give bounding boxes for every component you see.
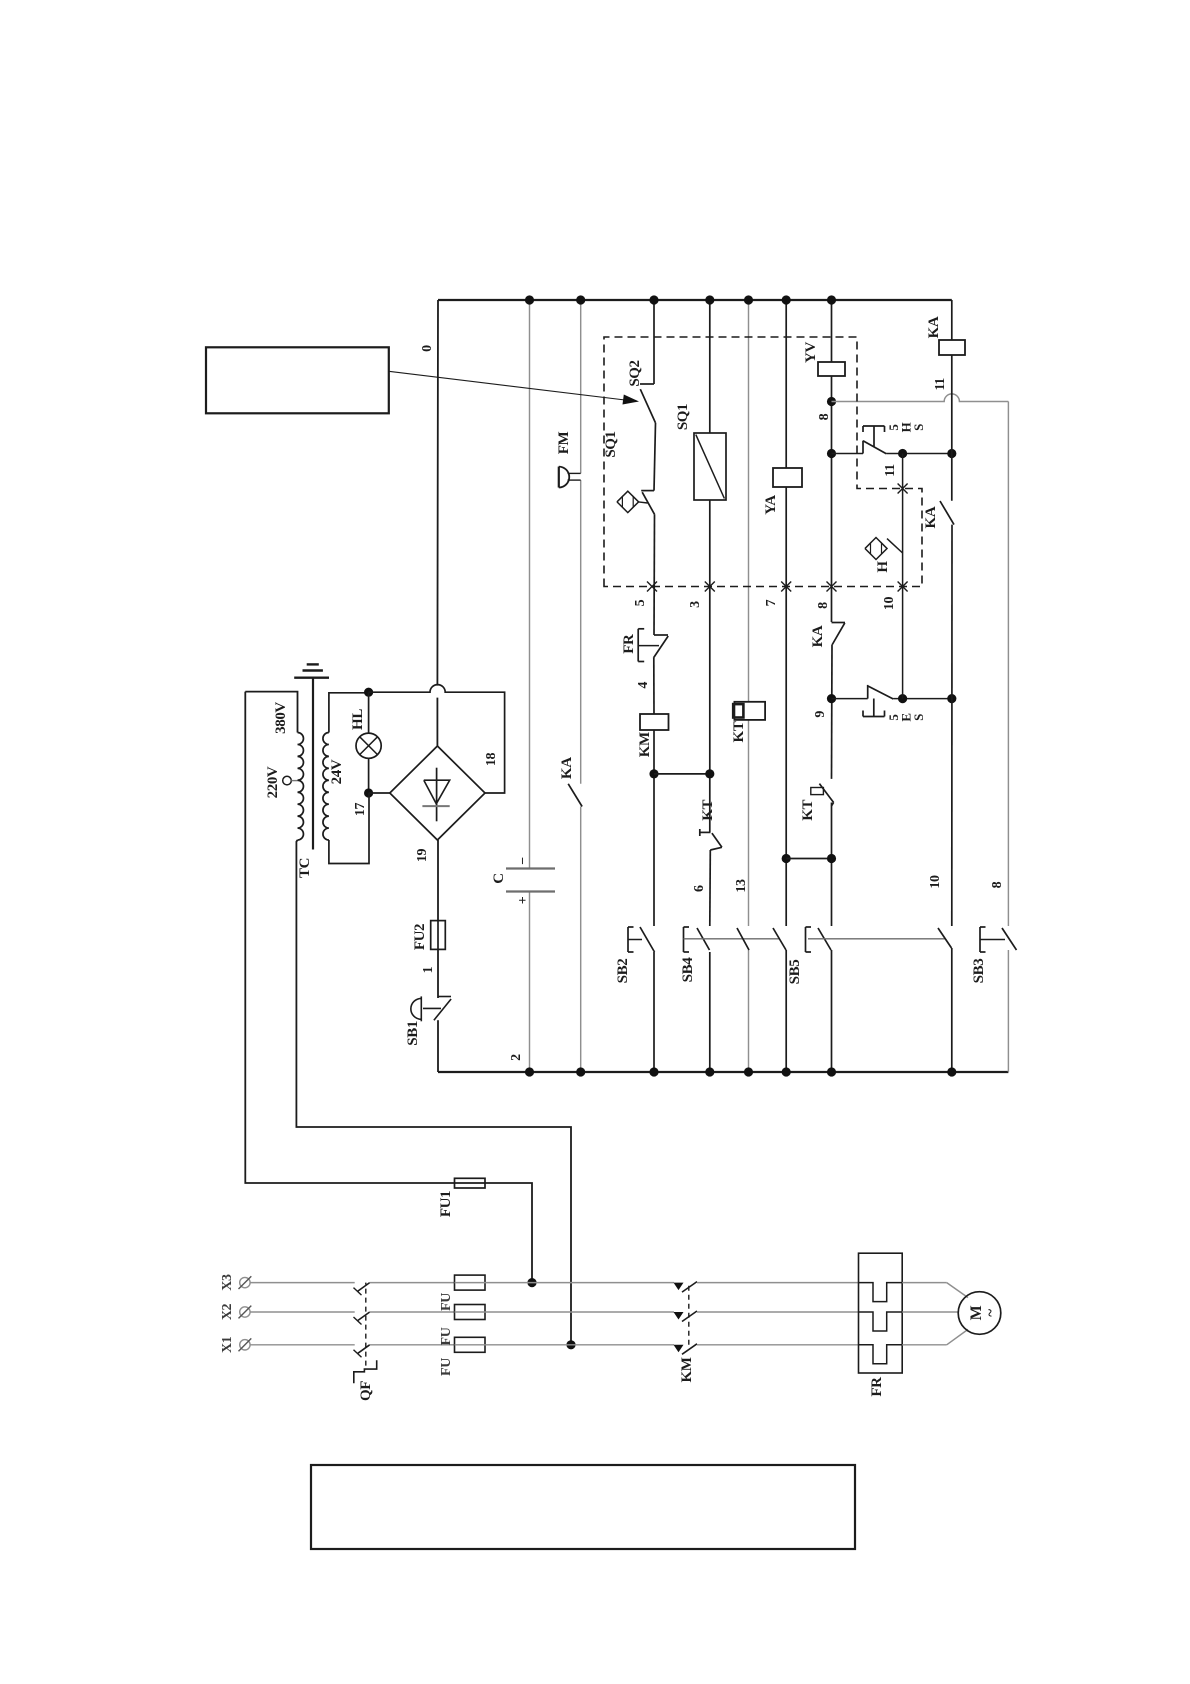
breaker QF linkage [365, 1283, 367, 1366]
switch 5ES [867, 685, 869, 699]
breaker QF pole X3 [357, 1283, 369, 1292]
wire rung 438 right segment (bridge plus output to rail 0) [436, 300, 439, 746]
junction rung654 left rail [649, 1067, 658, 1076]
wire phase X1 mid2 [485, 1344, 674, 1346]
crossing mark node 10 [898, 582, 908, 592]
wire 17 (HL to bridge top corner) [369, 792, 390, 794]
bridge diode [436, 768, 438, 822]
svg-text:KA: KA [810, 625, 826, 647]
svg-text:FM: FM [556, 432, 572, 455]
svg-text:TC: TC [297, 858, 313, 878]
svg-text:11: 11 [883, 464, 898, 477]
svg-text:X1: X1 [220, 1336, 235, 1353]
button SB3 contact [1002, 928, 1017, 950]
wire rung 710 segments [709, 952, 711, 1072]
button SB5 contact 2 [938, 928, 952, 948]
terminal X2 [240, 1307, 250, 1317]
junction 5HS-H branch [898, 449, 907, 458]
svg-text:220V: 220V [265, 766, 281, 798]
wire 2 (left return rail) [438, 1071, 1008, 1073]
valve coil YA [773, 468, 802, 487]
wire phase X1 lower [697, 1344, 859, 1346]
contactor coil KM [640, 714, 669, 730]
junction 5ES-rung952 [947, 694, 956, 703]
junction leadB-X1 [566, 1340, 575, 1349]
wire rung 580 (FM branch) [580, 807, 582, 1073]
svg-text:17: 17 [353, 803, 368, 817]
button SB4 contact 3 [773, 928, 786, 950]
time relay coil KT [734, 702, 765, 720]
svg-text:FU: FU [439, 1358, 454, 1376]
svg-text:0: 0 [420, 345, 435, 352]
svg-text:SB1: SB1 [405, 1021, 421, 1046]
junction rung580 left rail [576, 1067, 585, 1076]
svg-text:KA: KA [923, 506, 939, 528]
svg-text:4: 4 [636, 682, 651, 689]
svg-text:FU: FU [439, 1293, 454, 1311]
svg-text:KM: KM [679, 1357, 695, 1382]
junction rung952 left rail [947, 1067, 956, 1076]
svg-text:SQ1: SQ1 [603, 431, 619, 457]
wire phase X1 mid1 [370, 1344, 455, 1346]
svg-text:7: 7 [764, 599, 779, 606]
switch 5HS [862, 441, 864, 454]
svg-text:~: ~ [983, 1309, 999, 1317]
svg-text:X2: X2 [220, 1303, 235, 1320]
svg-text:6: 6 [692, 885, 707, 892]
motor M [958, 1292, 1001, 1335]
wire phase X3 mid2 [485, 1282, 674, 1284]
wire branch rung654 to rung710 [654, 773, 710, 775]
svg-text:C: C [491, 873, 507, 883]
fuse FU X2 [455, 1305, 486, 1320]
svg-text:S: S [911, 714, 926, 721]
svg-text:QF: QF [358, 1381, 374, 1401]
svg-text:18: 18 [484, 753, 499, 767]
svg-text:3: 3 [688, 601, 703, 608]
wire phase X1 upper [250, 1344, 355, 1346]
thermal relay FR body [859, 1253, 903, 1373]
junction rung748 right rail [744, 295, 753, 304]
wire 5HS branch lower [886, 453, 952, 455]
callout arrow [389, 371, 625, 400]
wire phase X2 mid1 [370, 1311, 455, 1313]
wire 0 (right supply rail) [438, 299, 952, 301]
junction rung530 left rail [525, 1067, 534, 1076]
wire branch rung786 to rung831 [786, 858, 831, 860]
stop button SB1 [437, 1019, 439, 1022]
svg-text:5: 5 [633, 599, 648, 606]
svg-text:SB5: SB5 [787, 960, 803, 985]
junction HL bottom [364, 788, 373, 797]
caption box [311, 1465, 855, 1549]
time relay contact KT (delayed NO) [819, 784, 833, 803]
svg-text:9: 9 [813, 711, 828, 718]
junction rung710 left rail [705, 1067, 714, 1076]
wire rung 1008 (SB3 branch) [1007, 950, 1009, 1072]
wire 19 (FU2 to rectifier) [437, 840, 439, 921]
fuse FU1 [455, 1178, 486, 1188]
svg-text:380V: 380V [273, 702, 289, 734]
wire phase X3 mid1 [370, 1282, 455, 1284]
wire rung 748 segments [748, 950, 750, 1072]
svg-text:19: 19 [415, 849, 430, 863]
junction rung748 left rail [744, 1067, 753, 1076]
junction rung831 right rail [827, 295, 836, 304]
wire 11 (node 8 to SB3 branch, crossover hump) [832, 394, 1009, 402]
button SB2 actuator [627, 927, 629, 952]
svg-text:KT: KT [700, 799, 716, 820]
wire phase X2 mid2 [485, 1311, 674, 1313]
svg-text:KA: KA [926, 316, 942, 338]
crossing mark node 7 [781, 582, 791, 592]
relay contact KA (NO, buzzer branch) [568, 784, 582, 807]
junction rung654 branch [649, 769, 658, 778]
button SB2 contact [640, 927, 655, 952]
wire phase X3 upper [250, 1282, 355, 1284]
wire phase X3 lower [697, 1282, 859, 1284]
svg-text:1: 1 [421, 966, 436, 973]
junction rung786 right rail [782, 295, 791, 304]
fuse FU X3 [455, 1275, 486, 1290]
svg-text:8: 8 [990, 881, 1005, 888]
bridge rectifier [390, 746, 485, 840]
transformer TC secondary winding [323, 732, 329, 840]
svg-text:H: H [875, 561, 891, 573]
button SB5 contact 1 [818, 928, 831, 950]
button SB4 actuator [683, 927, 685, 952]
lamp HL [368, 692, 370, 733]
junction 5HS-rung952 [947, 449, 956, 458]
svg-text:FU2: FU2 [412, 924, 428, 950]
svg-text:SB3: SB3 [971, 959, 987, 984]
svg-text:24V: 24V [329, 759, 345, 784]
svg-text:KT: KT [731, 721, 747, 742]
junction rung654 right rail [649, 295, 658, 304]
wire 1 (SB1 to FU2) [437, 949, 439, 998]
wire rung 952 segments [951, 948, 953, 1072]
junction rung710 branch [705, 769, 714, 778]
svg-text:KM: KM [637, 732, 653, 757]
buzzer FM [558, 467, 560, 488]
svg-text:KA: KA [559, 757, 575, 779]
svg-text:FU: FU [439, 1327, 454, 1345]
svg-text:13: 13 [734, 879, 749, 893]
crossing mark node 11 [898, 484, 908, 494]
svg-text:11: 11 [933, 378, 948, 391]
wire phase X2 upper [250, 1311, 355, 1313]
svg-text:8: 8 [816, 602, 831, 609]
junction rung786 left rail [782, 1067, 791, 1076]
time relay contact KT (NC) [700, 831, 711, 833]
wire phase X2 lower [697, 1311, 859, 1313]
wire 18 (secondary to bridge, with crossover hump) [369, 685, 505, 793]
limit switch SQ1 body [694, 433, 726, 500]
wire TC lead A (to FU1) [245, 692, 454, 1183]
dashed enclosure (machine-mounted components) [604, 337, 922, 587]
limit switch SQ2 contact [640, 383, 654, 385]
wire 5HS branch upper [832, 453, 864, 455]
svg-text:+: + [516, 896, 531, 904]
contactor main contact KM X3 [674, 1283, 684, 1291]
crossing mark node 5 [647, 582, 657, 592]
contactor KM linkage [688, 1283, 690, 1345]
callout box [206, 347, 389, 413]
junction rung580 right rail [576, 295, 585, 304]
junction FU1-X3 [527, 1278, 536, 1287]
svg-text:SQ2: SQ2 [627, 360, 643, 386]
junction rung831-5ES [827, 694, 836, 703]
button SB5 actuator [805, 927, 807, 952]
wire rung 902 (lamp H branch) [902, 454, 904, 699]
thermal relay FR heater X2 [859, 1312, 903, 1331]
junction rung786 branch [782, 854, 791, 863]
crossing mark node 8 [827, 582, 837, 592]
ground symbol [294, 677, 329, 679]
junction rung831 left rail [827, 1067, 836, 1076]
svg-text:FU1: FU1 [438, 1191, 454, 1217]
wire 5ES branch lower [893, 698, 952, 700]
junction rung710 right rail [705, 295, 714, 304]
capacitor C [506, 890, 555, 892]
svg-text:−: − [516, 857, 531, 865]
fuse FU X1 [455, 1337, 486, 1352]
wire rung 654 segments [653, 952, 655, 1072]
wire motor leads [902, 1311, 958, 1313]
svg-text:8: 8 [817, 413, 832, 420]
wire rung 438 left segment (rail 2 to SB1) [437, 1021, 439, 1072]
svg-text:SB2: SB2 [615, 959, 631, 984]
crossing mark node 3 [705, 582, 715, 592]
junction rung831-5HS [827, 449, 836, 458]
breaker QF pole X2 [357, 1312, 369, 1321]
button SB4 contact 2 [737, 928, 749, 950]
svg-text:HL: HL [350, 709, 366, 730]
junction rung831 branch786 [827, 854, 836, 863]
transformer TC core [312, 678, 314, 850]
svg-text:X3: X3 [220, 1274, 235, 1291]
relay contact KA (NC on rung831) [832, 622, 846, 624]
terminal X1 [240, 1340, 250, 1350]
junction node 8 [827, 397, 836, 406]
svg-text:10: 10 [928, 875, 943, 889]
limit switch SQ1 contact [641, 490, 654, 492]
valve coil YV [818, 362, 845, 376]
svg-text:S: S [911, 424, 926, 431]
thermal relay FR heater X3 [859, 1283, 903, 1302]
wire rung 831 segments [831, 950, 833, 1072]
svg-text:YV: YV [803, 342, 819, 363]
junction 5ES-H branch [898, 694, 907, 703]
svg-text:FR: FR [621, 634, 637, 654]
button SB3 actuator [979, 927, 981, 952]
contactor main contact KM X1 [674, 1345, 684, 1353]
svg-text:FR: FR [869, 1377, 885, 1397]
breaker QF pole X1 [357, 1345, 369, 1354]
svg-text:YA: YA [763, 495, 779, 515]
wire 5ES branch upper [832, 698, 868, 700]
wire primary lead right [245, 692, 297, 733]
breaker QF handle [354, 1360, 377, 1383]
terminal X3 [240, 1277, 250, 1287]
lamp H [865, 538, 887, 560]
junction HL top [364, 688, 373, 697]
relay contact KA (NO rung952) [940, 501, 954, 525]
fuse FU2 [431, 921, 446, 950]
svg-text:10: 10 [882, 597, 897, 611]
button SB4 contact 1 [697, 928, 710, 950]
wire rung 786 segments [785, 950, 787, 1072]
wire secondary left lead [329, 793, 369, 864]
thermal relay FR heater X1 [859, 1345, 903, 1364]
svg-text:2: 2 [509, 1054, 524, 1061]
wire primary lead left (TC lead B) [296, 840, 571, 1345]
contactor main contact KM X2 [674, 1312, 684, 1320]
svg-text:KT: KT [800, 799, 816, 820]
thermal contact FR [654, 634, 668, 636]
transformer TC primary winding [298, 732, 304, 840]
junction rung530 right rail [525, 295, 534, 304]
wire secondary right lead / wire 18 upper [329, 693, 369, 733]
tap terminal 220V [283, 776, 292, 785]
svg-text:SQ1: SQ1 [675, 404, 691, 430]
relay coil KA [939, 340, 965, 355]
wire rung 530 (capacitor branch) [529, 892, 531, 1073]
wire FU1 to phase X3 [485, 1183, 532, 1283]
svg-text:SB4: SB4 [680, 957, 696, 983]
